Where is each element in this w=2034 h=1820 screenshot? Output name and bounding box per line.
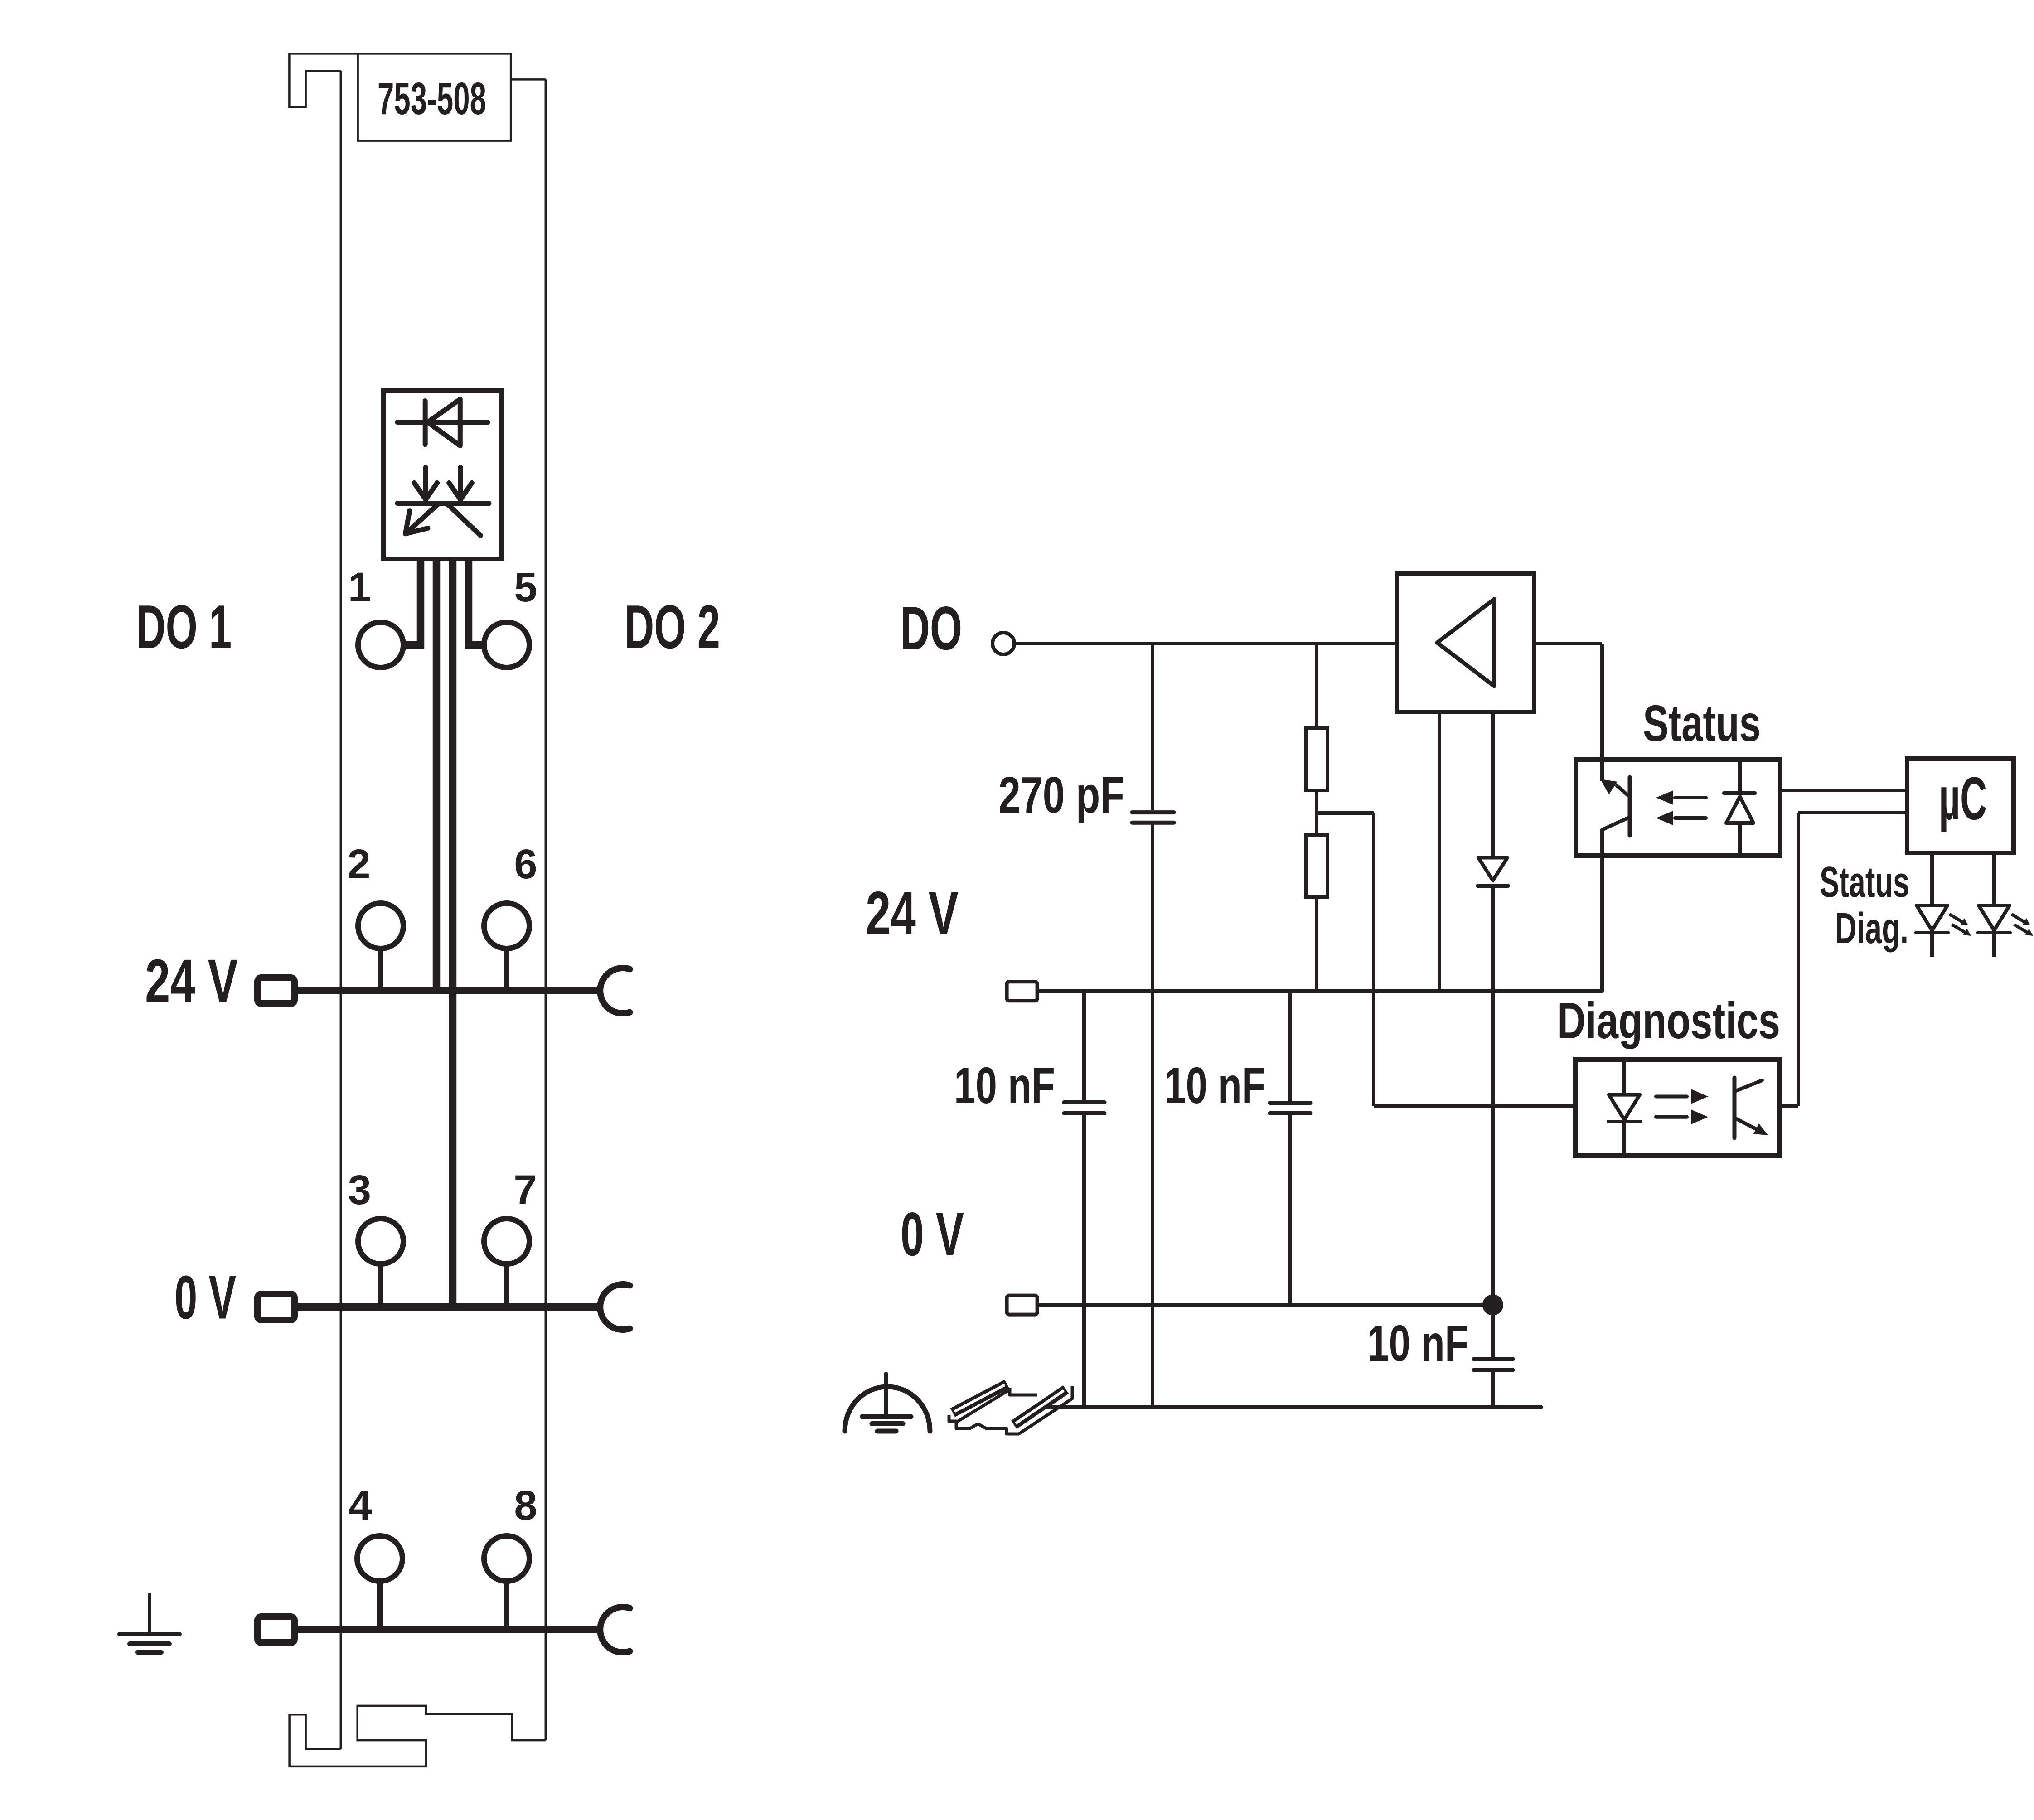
svg-text:DO 1: DO 1 bbox=[136, 592, 232, 661]
svg-text:3: 3 bbox=[348, 1167, 371, 1213]
svg-text:24 V: 24 V bbox=[145, 947, 238, 1016]
svg-text:0 V: 0 V bbox=[901, 1200, 964, 1268]
svg-text:270 pF: 270 pF bbox=[998, 766, 1124, 823]
svg-text:Diag.: Diag. bbox=[1835, 904, 1908, 953]
svg-text:8: 8 bbox=[514, 1482, 537, 1529]
svg-text:0 V: 0 V bbox=[174, 1263, 236, 1332]
svg-text:5: 5 bbox=[514, 564, 537, 610]
svg-text:10 nF: 10 nF bbox=[1367, 1315, 1468, 1372]
svg-text:Status: Status bbox=[1820, 858, 1909, 906]
svg-text:10 nF: 10 nF bbox=[1164, 1057, 1265, 1114]
svg-text:2: 2 bbox=[347, 841, 370, 887]
svg-text:10 nF: 10 nF bbox=[954, 1057, 1055, 1114]
svg-text:DO 2: DO 2 bbox=[625, 592, 720, 661]
svg-text:µC: µC bbox=[1939, 765, 1987, 833]
svg-text:4: 4 bbox=[349, 1482, 372, 1529]
svg-text:1: 1 bbox=[348, 564, 371, 610]
svg-text:7: 7 bbox=[513, 1167, 537, 1213]
svg-text:6: 6 bbox=[514, 841, 537, 887]
svg-text:DO: DO bbox=[900, 594, 962, 663]
svg-text:Diagnostics: Diagnostics bbox=[1557, 992, 1780, 1049]
svg-text:753-508: 753-508 bbox=[378, 73, 486, 124]
svg-text:24 V: 24 V bbox=[866, 879, 959, 948]
svg-text:Status: Status bbox=[1643, 695, 1761, 752]
